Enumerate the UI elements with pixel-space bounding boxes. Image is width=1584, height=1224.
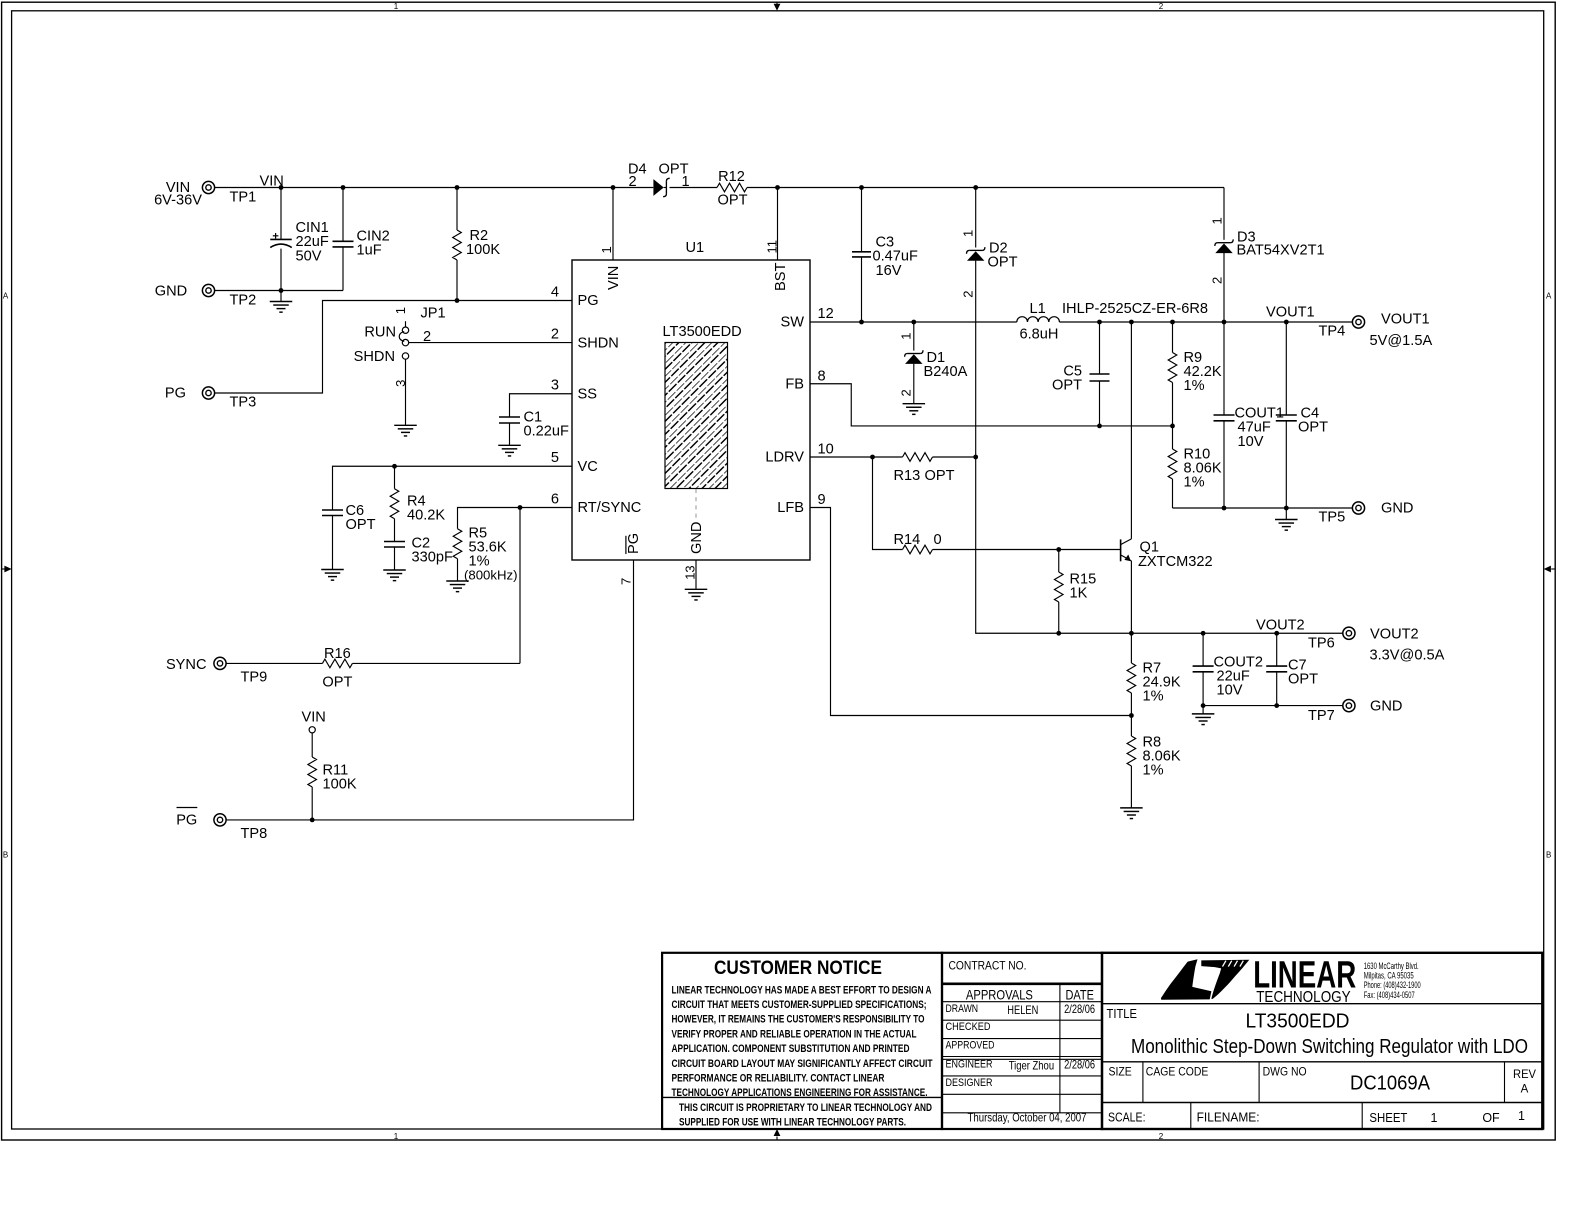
node VC-R4 — [392, 464, 397, 469]
svg-text:100K: 100K — [323, 777, 357, 793]
svg-text:12: 12 — [818, 306, 834, 322]
svg-text:100K: 100K — [466, 242, 500, 258]
diode D2 OPT — [975, 188, 977, 248]
svg-text:1: 1 — [960, 230, 975, 237]
wire JP1 pin3 to ground — [405, 359, 407, 425]
svg-text:A: A — [1546, 291, 1552, 300]
svg-text:CIRCUIT THAT MEETS CUSTOMER-SU: CIRCUIT THAT MEETS CUSTOMER-SUPPLIED SPE… — [672, 999, 927, 1011]
node FB-C5 — [1097, 424, 1102, 429]
node D3 bottom — [1222, 320, 1227, 325]
svg-text:OPT: OPT — [322, 675, 352, 691]
resistor R10 8.06K 1% — [1172, 426, 1174, 449]
op-amp U1 LT3500EDD body — [572, 260, 810, 560]
svg-text:50V: 50V — [296, 248, 322, 264]
node RT-SYNC branch — [518, 505, 523, 510]
svg-text:VIN: VIN — [606, 266, 622, 290]
svg-text:5V@1.5A: 5V@1.5A — [1370, 333, 1433, 349]
wire VOUT1 rail — [1059, 321, 1352, 323]
capacitor C7 OPT — [1276, 633, 1278, 666]
node Q1 collector top — [1129, 320, 1134, 325]
resistor R12 OPT — [717, 183, 747, 192]
resistor R9 42.2K 1% — [1172, 322, 1174, 353]
svg-text:B: B — [3, 851, 8, 860]
svg-text:Tiger Zhou: Tiger Zhou — [1009, 1059, 1054, 1073]
svg-text:OPT: OPT — [1298, 420, 1328, 436]
test point TP5 — [1352, 502, 1364, 514]
resistor R16 OPT — [322, 659, 352, 668]
node R15 top — [1056, 547, 1061, 552]
svg-text:Thursday, October 04, 2007: Thursday, October 04, 2007 — [968, 1112, 1087, 1124]
svg-text:7: 7 — [619, 578, 634, 585]
capacitor CIN1 22uF 50V — [280, 188, 282, 240]
svg-text:SW: SW — [780, 314, 804, 330]
node C7 top — [1274, 631, 1279, 636]
svg-text:A: A — [3, 291, 9, 300]
ground U1 pin13 — [685, 588, 708, 590]
capacitor CIN2 1uF — [342, 188, 344, 242]
svg-text:PERFORMANCE OR RELIABILITY. C: PERFORMANCE OR RELIABILITY. CONTACT LINE… — [672, 1073, 885, 1085]
node COUT2 gnd — [1201, 703, 1206, 708]
test point TP2 — [202, 284, 214, 296]
svg-text:LFB: LFB — [777, 500, 804, 516]
wire GND input — [215, 290, 343, 292]
svg-text:SHEET: SHEET — [1369, 1111, 1407, 1125]
svg-text:DWG NO: DWG NO — [1263, 1066, 1307, 1078]
svg-text:R14: R14 — [894, 532, 921, 548]
svg-text:VOUT2: VOUT2 — [1370, 627, 1419, 643]
svg-text:DATE: DATE — [1065, 987, 1094, 1002]
svg-text:5: 5 — [551, 450, 559, 466]
svg-text:1%: 1% — [1143, 689, 1164, 705]
svg-text:SIZE: SIZE — [1109, 1066, 1133, 1078]
svg-text:U1: U1 — [686, 240, 705, 256]
svg-text:HOWEVER, IT REMAINS THE CUSTOM: HOWEVER, IT REMAINS THE CUSTOMER'S RESPO… — [672, 1014, 925, 1026]
svg-text:1%: 1% — [1143, 763, 1164, 779]
svg-text:LT3500EDD: LT3500EDD — [1246, 1009, 1350, 1032]
svg-text:B: B — [1546, 851, 1551, 860]
test point TP7 — [1343, 700, 1355, 712]
svg-text:1: 1 — [1518, 1109, 1525, 1123]
svg-text:JP1: JP1 — [421, 306, 446, 322]
test point TP6 — [1343, 627, 1355, 639]
node R9 top — [1170, 320, 1175, 325]
svg-text:BAT54XV2T1: BAT54XV2T1 — [1237, 243, 1325, 259]
svg-text:TECHNOLOGY: TECHNOLOGY — [1256, 989, 1351, 1006]
ground D1 — [903, 403, 926, 405]
svg-text:6V-36V: 6V-36V — [154, 193, 202, 209]
svg-text:VC: VC — [578, 459, 598, 475]
node R2-PG — [455, 298, 460, 303]
resistor R13 OPT — [903, 453, 933, 462]
test point TP1 — [202, 181, 214, 193]
title block main — [1102, 953, 1542, 1129]
test point TP9 — [214, 657, 226, 669]
node VIN-R2 — [455, 185, 460, 190]
capacitor COUT1 47uF 10V — [1223, 322, 1225, 415]
svg-text:B240A: B240A — [924, 364, 968, 380]
resistor R4 40.2K — [394, 466, 396, 489]
svg-text:9: 9 — [818, 492, 826, 508]
svg-text:2/28/06: 2/28/06 — [1064, 1002, 1095, 1016]
wire VIN top rail — [215, 187, 613, 189]
resistor R7 24.9K 1% — [1130, 633, 1132, 663]
svg-text:ZXTCM322: ZXTCM322 — [1138, 554, 1213, 570]
svg-text:RUN: RUN — [364, 325, 396, 341]
svg-text:OPT: OPT — [718, 193, 748, 209]
svg-text:VOUT1: VOUT1 — [1381, 312, 1430, 328]
wire SYNC — [226, 662, 322, 664]
svg-text:Monolithic Step-Down Switching: Monolithic Step-Down Switching Regulator… — [1131, 1035, 1528, 1058]
wire R16 to RT — [352, 662, 520, 664]
node COUT2 top — [1201, 631, 1206, 636]
resistor R2 100K — [456, 188, 458, 231]
svg-text:TP4: TP4 — [1319, 324, 1346, 340]
svg-text:1: 1 — [1210, 217, 1225, 224]
svg-text:40.2K: 40.2K — [407, 507, 445, 523]
svg-text:2: 2 — [960, 290, 975, 297]
diode D4 OPT — [653, 179, 663, 196]
node TP4 branch — [1284, 320, 1289, 325]
svg-text:SYNC: SYNC — [166, 657, 207, 673]
svg-text:1: 1 — [1431, 1111, 1438, 1125]
svg-text:1: 1 — [599, 246, 614, 253]
resistor R14 0 — [903, 545, 933, 554]
ground VOUT1 — [1285, 508, 1287, 519]
ground C6 — [321, 569, 344, 571]
svg-text:8: 8 — [818, 368, 826, 384]
wire SS — [510, 394, 573, 417]
wire GND2 rail — [1203, 705, 1343, 707]
svg-text:6: 6 — [551, 491, 559, 507]
svg-text:FB: FB — [785, 377, 804, 393]
svg-text:CUSTOMER NOTICE: CUSTOMER NOTICE — [714, 957, 882, 979]
svg-text:2: 2 — [1159, 1132, 1164, 1141]
node LDRV-R14 — [870, 455, 875, 460]
wire SW — [810, 321, 1017, 323]
svg-text:APPLICATION. COMPONENT SUBSTI: APPLICATION. COMPONENT SUBSTITUTION AND … — [672, 1043, 910, 1055]
wire VIN to D4 — [613, 187, 653, 189]
svg-text:Milpitas, CA 95035: Milpitas, CA 95035 — [1364, 971, 1414, 981]
svg-text:SCALE:: SCALE: — [1108, 1111, 1146, 1125]
svg-text:10V: 10V — [1217, 683, 1243, 699]
svg-text:GND: GND — [689, 522, 705, 554]
svg-text:REV: REV — [1513, 1069, 1536, 1081]
svg-text:DRAWN: DRAWN — [946, 1003, 979, 1015]
border arrow left — [2, 568, 5, 570]
svg-text:6.8uH: 6.8uH — [1020, 327, 1059, 343]
wire SHDN — [409, 342, 572, 344]
svg-text:330pF: 330pF — [412, 550, 453, 566]
svg-text:R13: R13 — [894, 468, 921, 484]
Linear Technology logo — [1161, 959, 1249, 1000]
svg-text:PG: PG — [165, 386, 186, 402]
node COUT1 gnd — [1222, 506, 1227, 511]
node LDRV-D2 — [973, 455, 978, 460]
svg-text:THIS CIRCUIT IS PROPRIETARY TO: THIS CIRCUIT IS PROPRIETARY TO LINEAR TE… — [679, 1102, 932, 1114]
svg-text:VERIFY PROPER AND RELIABLE OPE: VERIFY PROPER AND RELIABLE OPERATION IN … — [672, 1028, 917, 1040]
pin 11 BST — [777, 188, 779, 261]
wire GND1 rail — [1173, 507, 1353, 509]
svg-text:Fax: (408)434-0507: Fax: (408)434-0507 — [1364, 990, 1415, 1000]
svg-text:APPROVED: APPROVED — [946, 1040, 995, 1052]
approvals table — [942, 953, 1102, 1129]
svg-text:2/28/06: 2/28/06 — [1064, 1058, 1095, 1072]
svg-text:TP1: TP1 — [230, 190, 257, 206]
resistor R5 53.6K 1% — [453, 529, 462, 559]
svg-text:2: 2 — [1159, 2, 1164, 11]
svg-text:A: A — [1521, 1084, 1529, 1096]
capacitor C5 OPT — [1099, 322, 1101, 374]
ground R5 — [446, 580, 469, 582]
border arrow right — [1551, 568, 1555, 570]
node SW-C3 — [859, 320, 864, 325]
svg-text:TP7: TP7 — [1308, 708, 1335, 724]
svg-text:APPROVALS: APPROVALS — [966, 987, 1033, 1002]
ground VOUT2 — [1202, 706, 1204, 714]
svg-text:VOUT2: VOUT2 — [1256, 618, 1305, 634]
node SW-D1 — [911, 320, 916, 325]
svg-text:Phone: (408)432-1900: Phone: (408)432-1900 — [1364, 980, 1421, 990]
svg-text:1630 McCarthy Blvd.: 1630 McCarthy Blvd. — [1364, 961, 1419, 971]
svg-text:(800kHz): (800kHz) — [464, 567, 518, 582]
node VIN-CIN1 — [279, 185, 284, 190]
node D2 top — [973, 185, 978, 190]
svg-text:LINEAR TECHNOLOGY HAS MADE A B: LINEAR TECHNOLOGY HAS MADE A BEST EFFORT… — [672, 984, 932, 996]
wire LFB — [810, 508, 1131, 716]
svg-text:CONTRACT NO.: CONTRACT NO. — [949, 961, 1027, 973]
svg-text:CHECKED: CHECKED — [946, 1021, 991, 1033]
svg-text:PG: PG — [626, 533, 642, 554]
svg-text:TECHNOLOGY APPLICATIONS ENGINE: TECHNOLOGY APPLICATIONS ENGINEERING FOR … — [672, 1087, 928, 1099]
svg-text:TITLE: TITLE — [1107, 1007, 1138, 1021]
diode D1 B240A — [913, 322, 915, 351]
node R15-VOUT2 — [1056, 631, 1061, 636]
ground JP1 — [394, 424, 417, 426]
node C7 gnd — [1274, 703, 1279, 708]
capacitor C1 0.22uF — [499, 416, 520, 418]
svg-text:VIN: VIN — [302, 710, 326, 726]
svg-text:R12: R12 — [718, 169, 745, 185]
svg-text:GND: GND — [155, 284, 187, 300]
svg-text:1: 1 — [394, 2, 399, 11]
svg-text:LT3500EDD: LT3500EDD — [663, 324, 742, 340]
node C5 top — [1097, 320, 1102, 325]
node C3 top — [859, 185, 864, 190]
pin 1 VIN — [612, 188, 614, 261]
svg-text:OPT: OPT — [1052, 378, 1082, 394]
capacitor C2 330pF — [384, 541, 405, 543]
resistor R11 100K — [308, 757, 317, 787]
svg-text:GND: GND — [1381, 500, 1413, 516]
svg-text:1uF: 1uF — [357, 243, 382, 259]
node GND-CIN1 — [279, 288, 284, 293]
svg-text:TP6: TP6 — [1308, 636, 1335, 652]
svg-text:DC1069A: DC1069A — [1350, 1072, 1430, 1095]
svg-text:ENGINEER: ENGINEER — [946, 1058, 993, 1070]
svg-text:1: 1 — [393, 307, 408, 314]
test point TP3 — [202, 387, 214, 399]
svg-text:0: 0 — [934, 532, 942, 548]
node Q1 emitter-R7 — [1129, 631, 1134, 636]
svg-text:VOUT1: VOUT1 — [1266, 305, 1315, 321]
svg-text:R16: R16 — [324, 646, 351, 662]
svg-text:RT/SYNC: RT/SYNC — [578, 500, 642, 516]
resistor R8 8.06K 1% — [1130, 716, 1132, 737]
svg-text:SUPPLIED FOR USE WITH LINEAR T: SUPPLIED FOR USE WITH LINEAR TECHNOLOGY … — [679, 1116, 906, 1128]
wire VOUT2 rail — [1016, 632, 1343, 634]
svg-text:2: 2 — [899, 389, 914, 396]
capacitor COUT2 22uF 10V — [1202, 633, 1204, 666]
svg-text:OF: OF — [1482, 1111, 1500, 1125]
border arrow top — [776, 2, 778, 4]
svg-text:2: 2 — [551, 327, 559, 343]
wire LDRV — [810, 456, 903, 458]
svg-text:4: 4 — [551, 285, 559, 301]
svg-text:TP5: TP5 — [1319, 510, 1346, 526]
svg-text:1: 1 — [899, 332, 914, 339]
wire R14 branch — [873, 457, 903, 550]
scale filename sheet row — [1190, 1103, 1192, 1130]
svg-text:10V: 10V — [1238, 434, 1264, 450]
svg-text:OPT: OPT — [346, 517, 376, 533]
svg-text:SHDN: SHDN — [578, 335, 619, 351]
svg-text:TP8: TP8 — [241, 826, 268, 842]
svg-text:HELEN: HELEN — [1007, 1003, 1038, 1017]
svg-text:2: 2 — [629, 174, 637, 190]
inductor L1 6.8uH — [1017, 317, 1060, 322]
wire RT/SYNC — [458, 508, 573, 529]
svg-text:10: 10 — [818, 442, 834, 458]
svg-text:0.22uF: 0.22uF — [524, 424, 570, 440]
svg-text:CIRCUIT BOARD LAYOUT MAY SIGNI: CIRCUIT BOARD LAYOUT MAY SIGNIFICANTLY A… — [672, 1058, 933, 1070]
svg-text:OPT: OPT — [988, 255, 1018, 271]
wire D2 to VOUT2 — [976, 457, 1016, 633]
svg-text:11: 11 — [764, 240, 779, 254]
svg-text:3.3V@0.5A: 3.3V@0.5A — [1370, 648, 1445, 664]
diode D3 BAT54XV2T1 — [1223, 188, 1225, 240]
node BST-R12 — [775, 185, 780, 190]
svg-text:LDRV: LDRV — [765, 449, 804, 465]
wire VC — [333, 466, 573, 510]
test point TP8 — [214, 814, 226, 826]
svg-text:IHLP-2525CZ-ER-6R8: IHLP-2525CZ-ER-6R8 — [1062, 301, 1208, 317]
svg-text:TP3: TP3 — [230, 395, 257, 411]
svg-text:TP2: TP2 — [230, 293, 257, 309]
node R11-PG — [310, 818, 315, 823]
ground R8 — [1120, 807, 1143, 809]
transistor Q1 ZXTCM322 — [1120, 539, 1122, 561]
U1 dashed lead — [695, 489, 697, 521]
svg-text:OPT: OPT — [925, 468, 955, 484]
svg-text:1%: 1% — [1184, 378, 1205, 394]
node FB divider — [1170, 424, 1175, 429]
svg-text:L1: L1 — [1030, 301, 1046, 317]
node C4 gnd — [1284, 506, 1289, 511]
wire RT to R16 — [519, 508, 521, 664]
border arrow bottom — [776, 1137, 778, 1141]
svg-text:DESIGNER: DESIGNER — [946, 1077, 993, 1089]
svg-text:PG: PG — [176, 813, 197, 829]
svg-text:3: 3 — [551, 378, 559, 394]
ground C1 — [498, 444, 521, 446]
ground input — [280, 291, 282, 302]
svg-text:SS: SS — [578, 387, 598, 403]
ground C2 — [383, 569, 406, 571]
wire PG to U1 pin4 — [215, 301, 572, 394]
svg-text:1%: 1% — [1184, 475, 1205, 491]
svg-text:CAGE CODE: CAGE CODE — [1146, 1066, 1209, 1078]
svg-text:16V: 16V — [876, 263, 902, 279]
capacitor C4 OPT — [1285, 322, 1287, 415]
node LFB divider — [1129, 713, 1134, 718]
size cagecode dwgno rev row — [1142, 1062, 1144, 1103]
node VIN-CIN2 — [341, 185, 346, 190]
wire R12 to D3 — [747, 187, 1224, 189]
svg-text:1: 1 — [394, 1132, 399, 1141]
capacitor C6 OPT — [322, 509, 343, 511]
wire FB — [810, 384, 1173, 426]
node VIN-D4 — [611, 185, 616, 190]
svg-text:BST: BST — [773, 263, 789, 291]
svg-text:SHDN: SHDN — [354, 349, 395, 365]
resistor R15 1K — [1058, 550, 1060, 573]
svg-text:13: 13 — [682, 565, 697, 579]
capacitor C3 0.47uF 16V — [861, 188, 863, 252]
customer notice box — [662, 953, 942, 1129]
U1 hatched die — [665, 343, 728, 489]
wire D4 to R12 — [670, 187, 718, 189]
test point TP4 — [1352, 316, 1364, 328]
svg-text:PG: PG — [578, 293, 599, 309]
svg-text:2: 2 — [1210, 277, 1225, 284]
svg-text:FILENAME:: FILENAME: — [1197, 1111, 1260, 1125]
svg-text:GND: GND — [1370, 699, 1402, 715]
svg-text:OPT: OPT — [1288, 672, 1318, 688]
svg-text:TP9: TP9 — [241, 670, 268, 686]
svg-text:1K: 1K — [1070, 586, 1088, 602]
wire R14 to Q1 base — [933, 549, 1121, 551]
wire PGbar — [226, 560, 633, 820]
